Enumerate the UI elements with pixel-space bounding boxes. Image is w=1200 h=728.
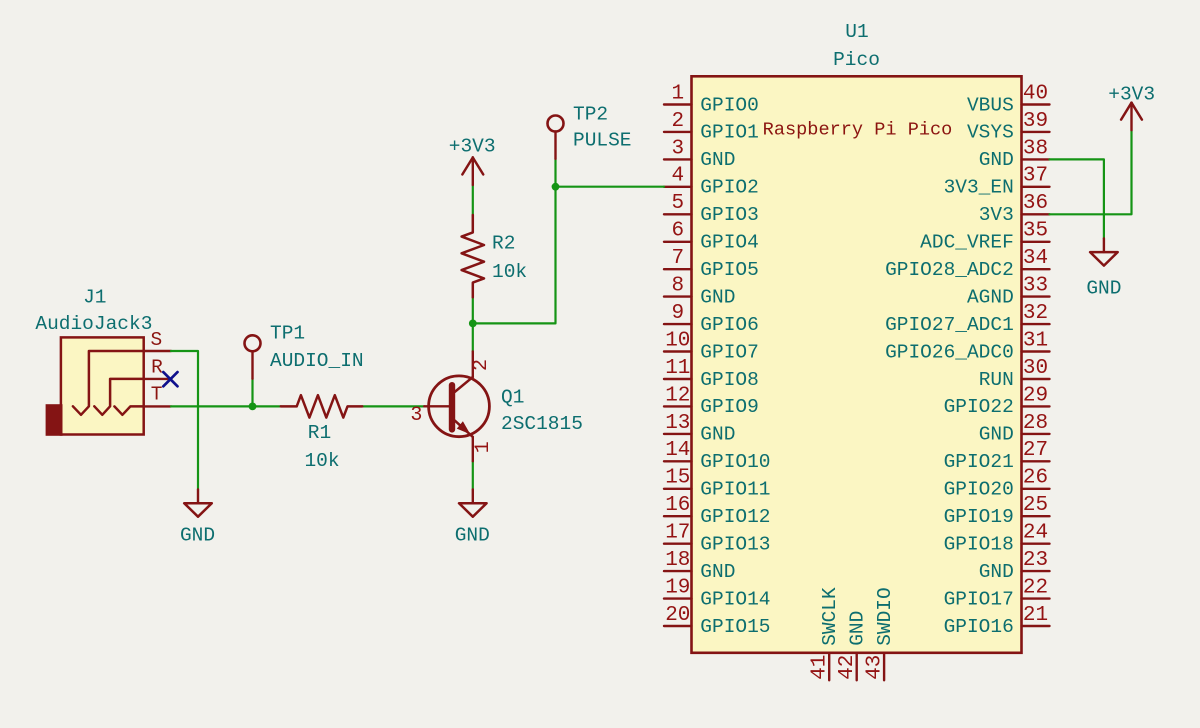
svg-text:35: 35	[1023, 220, 1048, 243]
junction at R2 bottom node	[469, 320, 477, 328]
ground symbol at U1 pin 38	[1090, 238, 1118, 265]
svg-text:3V3: 3V3	[979, 204, 1014, 226]
U1 pin 28 GND (right)	[979, 412, 1050, 446]
svg-text:+3V3: +3V3	[1108, 83, 1155, 105]
svg-text:2SC1815: 2SC1815	[501, 413, 583, 435]
svg-text:18: 18	[665, 549, 690, 572]
svg-text:U1: U1	[845, 21, 868, 43]
svg-text:AGND: AGND	[967, 286, 1014, 308]
svg-text:VBUS: VBUS	[967, 94, 1014, 116]
J1 sleeve contact S	[73, 351, 144, 415]
Q1 pin 2 number	[470, 359, 493, 371]
U1 pin 2 GPIO1 (left)	[664, 110, 759, 144]
resistor R2 (10k)	[462, 215, 484, 297]
svg-text:4: 4	[671, 165, 684, 188]
svg-text:6: 6	[671, 220, 684, 243]
svg-text:21: 21	[1023, 604, 1048, 627]
svg-text:20: 20	[665, 604, 690, 627]
ground symbol under Q1	[459, 490, 487, 517]
U1 pin 37 3V3_EN (right)	[944, 165, 1050, 199]
GND label (under Q1)	[455, 525, 490, 547]
svg-text:10k: 10k	[492, 261, 527, 283]
U1 pin 34 GPIO28_ADC2 (right)	[885, 247, 1049, 281]
+3V3 label (right)	[1108, 83, 1155, 105]
svg-text:GND: GND	[700, 561, 735, 583]
svg-text:Pico: Pico	[833, 49, 880, 71]
U1 pin 13 GND (left)	[664, 412, 735, 446]
svg-text:38: 38	[1023, 137, 1048, 160]
svg-text:3V3_EN: 3V3_EN	[944, 177, 1014, 199]
U1 pin 4 GPIO2 (left)	[664, 165, 759, 199]
svg-text:11: 11	[665, 357, 690, 380]
connector J1 AudioJack3 body	[61, 337, 144, 434]
svg-text:29: 29	[1023, 384, 1048, 407]
J1 pin T stub	[144, 405, 171, 407]
svg-text:GPIO18: GPIO18	[944, 534, 1014, 556]
U1 pin 36 3V3 (right)	[979, 192, 1050, 226]
Q1 pin 3 number	[410, 404, 422, 427]
svg-text:26: 26	[1023, 467, 1048, 490]
U1 pin 26 GPIO20 (right)	[944, 467, 1050, 501]
wire J1-T to R1 (node AUDIO_IN)	[171, 405, 281, 407]
wire R1 to Q1 base	[362, 405, 424, 407]
+3V3 power symbol above R2	[462, 158, 483, 186]
svg-text:GND: GND	[700, 149, 735, 171]
TP1 reference label	[270, 322, 305, 344]
svg-text:ADC_VREF: ADC_VREF	[920, 232, 1014, 254]
U1 pin 17 GPIO13 (left)	[664, 522, 771, 556]
U1 pin 24 GPIO18 (right)	[944, 522, 1050, 556]
wire Q1 collector to R2 node	[472, 323, 474, 351]
U1 pin 8 GND (left)	[664, 275, 735, 309]
svg-text:3: 3	[671, 137, 684, 160]
U1 pin 6 GPIO4 (left)	[664, 220, 759, 254]
U1 pin 1 GPIO0 (left)	[664, 82, 759, 116]
svg-text:T: T	[151, 384, 163, 406]
U1 pin 14 GPIO10 (left)	[664, 439, 771, 473]
svg-text:33: 33	[1023, 275, 1048, 298]
svg-text:22: 22	[1023, 577, 1048, 600]
svg-text:PULSE: PULSE	[573, 130, 632, 152]
wire +3V3 to R2 top	[472, 185, 474, 215]
svg-text:10: 10	[665, 329, 690, 352]
svg-text:1: 1	[472, 441, 495, 453]
svg-text:GPIO5: GPIO5	[700, 259, 759, 281]
Q1 pin 1 number	[472, 441, 495, 453]
wire R2 bottom to junction	[472, 297, 474, 323]
J1 pin R stub	[144, 378, 171, 380]
J1 pin S stub	[144, 350, 171, 352]
svg-text:GND: GND	[455, 525, 490, 547]
U1 description text Raspberry Pi Pico	[763, 120, 953, 141]
svg-text:+3V3: +3V3	[449, 136, 496, 158]
svg-text:SWDIO: SWDIO	[874, 587, 896, 646]
svg-text:GND: GND	[1086, 278, 1121, 300]
junction at TP1 / AUDIO_IN node	[249, 403, 257, 411]
svg-text:GND: GND	[979, 149, 1014, 171]
svg-text:GPIO7: GPIO7	[700, 341, 759, 363]
svg-text:17: 17	[665, 522, 690, 545]
svg-text:Raspberry Pi Pico: Raspberry Pi Pico	[763, 120, 953, 141]
svg-text:GPIO15: GPIO15	[700, 616, 770, 638]
svg-text:GND: GND	[700, 286, 735, 308]
test point TP1	[245, 335, 261, 379]
svg-text:GPIO27_ADC1: GPIO27_ADC1	[885, 314, 1014, 336]
svg-text:AUDIO_IN: AUDIO_IN	[270, 350, 364, 372]
svg-text:12: 12	[665, 384, 690, 407]
svg-text:GPIO0: GPIO0	[700, 94, 759, 116]
svg-text:R1: R1	[308, 422, 331, 444]
wire TP2 to junction	[554, 159, 556, 187]
Q1 value label 2SC1815	[501, 413, 583, 435]
svg-text:GPIO4: GPIO4	[700, 232, 759, 254]
svg-text:GPIO10: GPIO10	[700, 451, 770, 473]
svg-text:GPIO16: GPIO16	[944, 616, 1014, 638]
svg-text:SWCLK: SWCLK	[819, 587, 841, 646]
+3V3 power symbol right of U1	[1121, 103, 1142, 131]
svg-text:GND: GND	[847, 611, 869, 646]
U1 pin 21 GPIO16 (right)	[944, 604, 1050, 638]
svg-text:40: 40	[1023, 82, 1048, 105]
svg-text:J1: J1	[83, 287, 106, 309]
R1 reference label	[308, 422, 331, 444]
svg-text:TP2: TP2	[573, 104, 608, 126]
svg-text:GND: GND	[700, 424, 735, 446]
J1 pin T label	[151, 384, 163, 406]
J1 tip contact T	[114, 406, 143, 414]
svg-text:5: 5	[671, 192, 684, 215]
svg-text:GPIO20: GPIO20	[944, 479, 1014, 501]
U1 pin 33 AGND (right)	[967, 275, 1050, 309]
junction at TP2 / PULSE node	[552, 183, 560, 191]
test point TP2	[548, 116, 564, 159]
U1 pin 9 GPIO6 (left)	[664, 302, 759, 336]
GND label (under J1)	[180, 525, 215, 547]
J1 ring contact R	[94, 379, 143, 415]
U1 pin 5 GPIO3 (left)	[664, 192, 759, 226]
svg-text:1: 1	[671, 82, 684, 105]
U1 pin 31 GPIO26_ADC0 (right)	[885, 329, 1049, 363]
Q1 reference label	[501, 387, 524, 409]
TP2 reference label	[573, 104, 608, 126]
svg-text:2: 2	[671, 110, 684, 133]
U1 pin 16 GPIO12 (left)	[664, 494, 771, 528]
U1 pin 10 GPIO7 (left)	[664, 329, 759, 363]
R2 reference label	[492, 233, 515, 255]
svg-text:GPIO1: GPIO1	[700, 122, 759, 144]
svg-text:GND: GND	[979, 424, 1014, 446]
J1 reference label	[83, 287, 106, 309]
svg-text:25: 25	[1023, 494, 1048, 517]
svg-text:GPIO19: GPIO19	[944, 506, 1014, 528]
J1 pin S label	[151, 329, 163, 351]
svg-text:15: 15	[665, 467, 690, 490]
svg-text:2: 2	[470, 359, 493, 371]
svg-text:GPIO17: GPIO17	[944, 588, 1014, 610]
svg-text:RUN: RUN	[979, 369, 1014, 391]
svg-text:24: 24	[1023, 522, 1048, 545]
svg-text:GND: GND	[180, 525, 215, 547]
svg-text:8: 8	[671, 275, 684, 298]
svg-text:28: 28	[1023, 412, 1048, 435]
R2 value label 10k	[492, 261, 527, 283]
svg-text:42: 42	[836, 655, 859, 680]
transistor Q1 2SC1815 (NPN)	[424, 351, 489, 461]
TP2 net label PULSE	[573, 130, 632, 152]
svg-text:GPIO8: GPIO8	[700, 369, 759, 391]
svg-text:GPIO22: GPIO22	[944, 396, 1014, 418]
U1 pin 15 GPIO11 (left)	[664, 467, 771, 501]
wire U1 pin38 GND to GND symbol	[1050, 159, 1104, 238]
U1 pin 11 GPIO8 (left)	[664, 357, 759, 391]
svg-text:GPIO21: GPIO21	[944, 451, 1014, 473]
U1 pin 19 GPIO14 (left)	[664, 577, 771, 611]
svg-text:VSYS: VSYS	[967, 122, 1014, 144]
U1 pin 7 GPIO5 (left)	[664, 247, 759, 281]
svg-text:16: 16	[665, 494, 690, 517]
svg-text:41: 41	[809, 655, 832, 680]
svg-text:19: 19	[665, 577, 690, 600]
wire TP1 to junction	[251, 379, 253, 407]
svg-text:R: R	[151, 356, 163, 378]
svg-text:GPIO14: GPIO14	[700, 588, 770, 610]
U1 pin 18 GND (left)	[664, 549, 735, 583]
svg-text:3: 3	[410, 404, 422, 427]
no-connect X on J1 pin R	[163, 372, 177, 386]
U1 pin 32 GPIO27_ADC1 (right)	[885, 302, 1049, 336]
svg-text:30: 30	[1023, 357, 1048, 380]
svg-text:36: 36	[1023, 192, 1048, 215]
wire U1 pin36 3V3 to +3V3 symbol	[1050, 130, 1132, 214]
svg-text:GPIO11: GPIO11	[700, 479, 770, 501]
svg-text:GPIO6: GPIO6	[700, 314, 759, 336]
U1 pin 3 GND (left)	[664, 137, 735, 171]
svg-text:37: 37	[1023, 165, 1048, 188]
svg-text:13: 13	[665, 412, 690, 435]
U1 pin 42 GND (bottom)	[836, 611, 869, 681]
svg-text:Q1: Q1	[501, 387, 524, 409]
wire J1-S to GND (down)	[171, 351, 198, 490]
J1 pin R label	[151, 356, 163, 378]
svg-text:39: 39	[1023, 110, 1048, 133]
U1 value label Pico	[833, 49, 880, 71]
R1 value label 10k	[304, 450, 339, 472]
ground symbol under J1	[184, 490, 212, 517]
U1 pin 20 GPIO15 (left)	[664, 604, 771, 638]
U1 pin 30 RUN (right)	[979, 357, 1050, 391]
svg-text:GPIO12: GPIO12	[700, 506, 770, 528]
GND label (right)	[1086, 278, 1121, 300]
svg-text:R2: R2	[492, 233, 515, 255]
svg-text:GPIO2: GPIO2	[700, 177, 759, 199]
svg-text:TP1: TP1	[270, 322, 305, 344]
U1 pin 41 SWCLK (bottom)	[809, 587, 842, 680]
U1 pin 22 GPIO17 (right)	[944, 577, 1050, 611]
svg-text:GPIO3: GPIO3	[700, 204, 759, 226]
svg-text:27: 27	[1023, 439, 1048, 462]
J1 sleeve barrel (filled)	[46, 404, 63, 436]
svg-text:34: 34	[1023, 247, 1048, 270]
U1 pin 27 GPIO21 (right)	[944, 439, 1050, 473]
U1 pin 35 ADC_VREF (right)	[920, 220, 1049, 254]
IC U1 Raspberry Pi Pico body	[692, 76, 1022, 653]
svg-text:32: 32	[1023, 302, 1048, 325]
U1 pin 39 VSYS (right)	[967, 110, 1050, 144]
resistor R1 (10k)	[281, 395, 362, 417]
svg-text:AudioJack3: AudioJack3	[35, 313, 152, 335]
wire Q1 emitter to GND	[472, 461, 474, 489]
svg-text:7: 7	[671, 247, 684, 270]
U1 pin 40 VBUS (right)	[967, 82, 1050, 116]
U1 pin 43 SWDIO (bottom)	[863, 587, 896, 680]
svg-text:GND: GND	[979, 561, 1014, 583]
svg-text:GPIO9: GPIO9	[700, 396, 759, 418]
svg-text:23: 23	[1023, 549, 1048, 572]
U1 pin 38 GND (right)	[979, 137, 1050, 171]
svg-text:10k: 10k	[304, 450, 339, 472]
svg-text:31: 31	[1023, 329, 1048, 352]
svg-text:GPIO26_ADC0: GPIO26_ADC0	[885, 341, 1014, 363]
U1 reference label	[845, 21, 868, 43]
+3V3 label (above R2)	[449, 136, 496, 158]
svg-text:14: 14	[665, 439, 690, 462]
U1 pin 29 GPIO22 (right)	[944, 384, 1050, 418]
svg-text:9: 9	[671, 302, 684, 325]
U1 pin 12 GPIO9 (left)	[664, 384, 759, 418]
TP1 net label AUDIO_IN	[270, 350, 364, 372]
svg-text:43: 43	[863, 655, 886, 680]
U1 pin 23 GND (right)	[979, 549, 1050, 583]
svg-text:GPIO13: GPIO13	[700, 534, 770, 556]
U1 pin 25 GPIO19 (right)	[944, 494, 1050, 528]
wire node PULSE across to U1 GPIO2	[473, 187, 664, 324]
svg-text:GPIO28_ADC2: GPIO28_ADC2	[885, 259, 1014, 281]
J1 value label AudioJack3	[35, 313, 152, 335]
